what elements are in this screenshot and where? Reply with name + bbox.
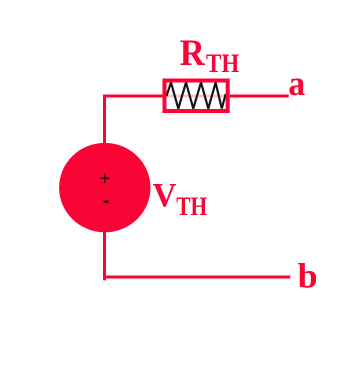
resistor R_TH: [163, 79, 230, 114]
+ polarity mark: [100, 174, 109, 183]
wire: bottom horizontal to terminal b: [103, 276, 290, 279]
- polarity mark: [104, 200, 109, 202]
wire: source top up and right to resistor: [105, 96, 164, 146]
svg-text:R: R: [180, 33, 206, 74]
svg-text:TH: TH: [206, 49, 240, 78]
wire: source bottom down to corner: [103, 230, 106, 280]
voltage source V_TH: [59, 143, 150, 232]
svg-text:b: b: [298, 257, 318, 295]
svg-text:TH: TH: [176, 192, 207, 221]
svg-text:a: a: [288, 64, 305, 103]
wire: resistor right to terminal a: [229, 95, 289, 98]
svg-text:V: V: [153, 177, 177, 214]
